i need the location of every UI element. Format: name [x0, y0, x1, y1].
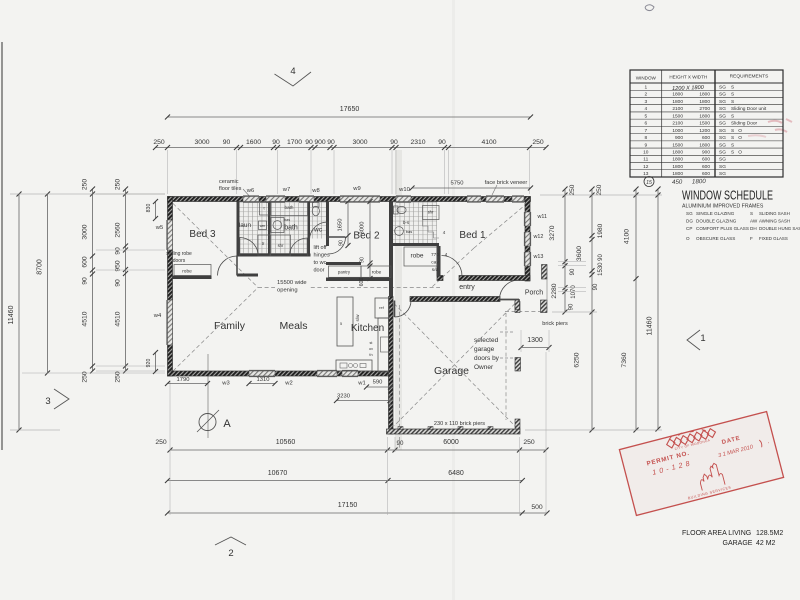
door laundry: [240, 238, 259, 257]
pen mark top right corner: [645, 5, 654, 11]
svg-text:w13: w13: [533, 254, 544, 260]
dim 920 line: [155, 353, 157, 372]
svg-text:S: S: [750, 211, 753, 216]
svg-text:1800: 1800: [672, 99, 683, 105]
svg-text:600: 600: [702, 157, 710, 163]
svg-text:SG: SG: [719, 128, 726, 134]
svg-text:4510: 4510: [82, 311, 89, 326]
svg-text:90: 90: [327, 139, 335, 146]
garage right wall bottom pier: [515, 419, 520, 429]
dim 3230: [337, 400, 391, 402]
svg-text:Bed 2: Bed 2: [353, 231, 380, 242]
svg-text:2100: 2100: [672, 106, 683, 112]
svg-text:SG: SG: [719, 121, 726, 127]
window w11: [525, 212, 530, 226]
svg-text:FLOOR AREA LIVING: FLOOR AREA LIVING: [682, 530, 751, 537]
laundry trough: [260, 203, 270, 216]
door bed2: [329, 236, 346, 238]
svg-text:920: 920: [146, 359, 152, 368]
svg-text:42 M2: 42 M2: [756, 540, 776, 547]
svg-text:1800: 1800: [672, 150, 683, 156]
table header row: [630, 82, 783, 84]
wall robe bed1 east: [437, 246, 441, 277]
svg-text:S: S: [731, 113, 734, 119]
svg-text:1800: 1800: [672, 92, 683, 98]
bed3 robe cabinet: [174, 265, 211, 276]
svg-text:90: 90: [438, 139, 446, 146]
svg-text:SG: SG: [686, 211, 693, 216]
right extension lines: [540, 194, 662, 196]
exterior wall top: [168, 197, 531, 202]
fridge space: [375, 298, 389, 318]
right dim string V2: [591, 189, 593, 430]
svg-text:15: 15: [646, 180, 652, 186]
bottom dim B2: [168, 480, 523, 482]
garage south wall piers: [398, 427, 403, 430]
svg-text:bas: bas: [284, 218, 290, 222]
svg-text:bas: bas: [406, 229, 412, 234]
svg-text:w12: w12: [533, 234, 544, 240]
svg-text:OBSCURE GLASS: OBSCURE GLASS: [696, 236, 735, 241]
door bed3: [218, 256, 238, 276]
svg-text:3000: 3000: [82, 224, 89, 239]
svg-text:2100: 2100: [672, 121, 683, 127]
interior dim line x348: [347, 202, 349, 246]
svg-text:b-s: b-s: [403, 220, 410, 225]
svg-text:90: 90: [569, 303, 575, 310]
svg-text:1200 X 1800: 1200 X 1800: [672, 85, 705, 92]
svg-text:5750: 5750: [451, 181, 464, 187]
svg-text:90: 90: [339, 240, 345, 246]
svg-text:w2: w2: [284, 381, 292, 387]
window w1 south: [342, 371, 358, 376]
svg-text:3230: 3230: [337, 394, 350, 400]
svg-text:entry: entry: [459, 284, 475, 291]
svg-text:DOUBLE HUNG SASH: DOUBLE HUNG SASH: [759, 226, 800, 231]
svg-text:SG: SG: [719, 84, 726, 90]
section marker 2 chevron: [215, 537, 246, 545]
svg-text:1600: 1600: [246, 139, 261, 146]
wall kitchen-garage: [389, 297, 394, 435]
svg-text:lift off: lift off: [314, 245, 328, 251]
svg-text:w9: w9: [352, 186, 360, 192]
wall wc/hall: [326, 202, 329, 247]
roof ridge dash: [258, 287, 440, 289]
garage roof dashes: [394, 304, 515, 427]
svg-text:s/d: s/d: [432, 267, 439, 273]
svg-text:th: th: [369, 353, 372, 357]
porch pier south: [541, 300, 548, 313]
svg-text:WINDOW: WINDOW: [636, 76, 657, 81]
svg-text:shr: shr: [428, 210, 434, 215]
table rows: [630, 89, 783, 91]
svg-text:1650: 1650: [338, 219, 344, 232]
svg-text:4510: 4510: [115, 311, 122, 326]
section marker A line: [207, 354, 209, 438]
garage centre dashed line: [399, 305, 401, 448]
dim 1310: [249, 383, 275, 385]
dim 590: [367, 386, 391, 388]
svg-text:doors: doors: [173, 258, 186, 264]
tiled floor ensuite: [393, 202, 437, 244]
svg-text:12: 12: [643, 164, 649, 170]
svg-text:90: 90: [223, 139, 231, 146]
svg-text:Garage: Garage: [434, 365, 469, 377]
svg-text:1800: 1800: [672, 164, 683, 170]
svg-text:1500: 1500: [672, 142, 683, 148]
svg-text:ov: ov: [369, 347, 373, 351]
svg-text:COMFORT PLUS GLASS: COMFORT PLUS GLASS: [696, 226, 749, 231]
svg-text:Bed 1: Bed 1: [459, 230, 486, 241]
svg-text:opening: opening: [277, 288, 298, 294]
exterior wall family south: [168, 371, 393, 376]
svg-text:90: 90: [570, 268, 576, 275]
svg-text:SLIDING SASH: SLIDING SASH: [759, 211, 790, 216]
svg-text:3000: 3000: [360, 222, 366, 235]
roof hip dashes family: [173, 204, 258, 288]
bath vanity basin: [271, 218, 284, 233]
svg-text:7360: 7360: [621, 352, 628, 367]
svg-text:90: 90: [272, 139, 280, 146]
dim 11460 line (left): [18, 194, 20, 430]
ensuite shower: [423, 206, 440, 220]
porch pier north: [542, 265, 548, 280]
svg-text:robe: robe: [372, 270, 382, 276]
roof hip dashes bed1: [474, 203, 528, 248]
svg-text:90: 90: [82, 277, 89, 285]
svg-text:robe: robe: [410, 253, 423, 260]
wall bed2/ensuite: [389, 202, 393, 297]
svg-text:pantry: pantry: [338, 270, 351, 275]
wall south of pantry/robe: [326, 278, 391, 282]
bed2 robe cabinet: [361, 266, 391, 277]
svg-text:w7: w7: [282, 187, 290, 193]
svg-text:SG: SG: [719, 99, 726, 105]
svg-text:w11: w11: [537, 214, 548, 220]
window w9: [340, 197, 380, 202]
svg-text:770: 770: [431, 252, 439, 258]
svg-text:1000: 1000: [672, 128, 683, 134]
svg-text:250: 250: [115, 179, 122, 191]
ensuite toilet: [394, 206, 399, 214]
porch edge line: [546, 265, 548, 312]
stamp logo diamonds: [666, 428, 717, 449]
pink scan smudge near table rows: [768, 119, 792, 132]
svg-text:1800: 1800: [699, 142, 710, 148]
svg-text:9: 9: [644, 142, 647, 148]
window w4 (left wall): [168, 300, 173, 345]
svg-text:w5: w5: [155, 225, 163, 231]
svg-text:ALUMINIUM IMPROVED FRAMES: ALUMINIUM IMPROVED FRAMES: [682, 204, 764, 210]
stamp BUILDING SERVICES: [688, 486, 732, 500]
window w3/w2 south a: [249, 371, 275, 376]
svg-text:floor tiles: floor tiles: [219, 186, 242, 192]
svg-text:cav: cav: [431, 261, 439, 266]
svg-text:SG: SG: [719, 142, 726, 148]
svg-text:w8: w8: [311, 188, 319, 194]
svg-text:S: S: [731, 99, 734, 105]
exterior wall bed1 front: [459, 276, 530, 281]
svg-text:2: 2: [228, 548, 233, 559]
section marker 3 chevron: [54, 389, 69, 409]
svg-text:S O: S O: [731, 135, 742, 141]
svg-text:Kitchen: Kitchen: [351, 323, 384, 334]
svg-text:90: 90: [397, 440, 404, 447]
svg-text:1800: 1800: [699, 99, 710, 105]
stamp castle icon: [696, 462, 725, 490]
svg-text:SG: SG: [719, 164, 726, 170]
svg-text:DG: DG: [686, 219, 693, 224]
wall stub bed1 door: [437, 276, 443, 281]
svg-text:11460: 11460: [8, 305, 15, 324]
svg-text:SG: SG: [719, 92, 726, 98]
svg-text:6250: 6250: [574, 352, 581, 367]
svg-text:8700: 8700: [37, 259, 44, 275]
svg-text:900: 900: [675, 135, 683, 141]
window w13: [525, 252, 530, 266]
page edge line left: [1, 42, 3, 450]
svg-text:6000: 6000: [443, 439, 459, 446]
window w6: [243, 197, 259, 202]
svg-text:DOUBLE GLAZING: DOUBLE GLAZING: [696, 219, 737, 224]
tiled floor bathroom: [271, 202, 308, 254]
svg-text:w1: w1: [357, 381, 365, 387]
bottom dim B3: [168, 512, 548, 514]
kitchen cooktop marks: [340, 363, 347, 368]
garage right wall mid pier: [515, 358, 521, 372]
svg-text:10560: 10560: [276, 439, 296, 446]
kitchen oven tower inner: [381, 337, 389, 352]
wall bath/wc: [308, 202, 311, 257]
bottom dim string B1: [170, 449, 546, 451]
svg-text:90: 90: [593, 283, 599, 290]
face brick veneer leader: [492, 185, 497, 195]
svg-text:ceramic: ceramic: [219, 179, 239, 185]
scan streak: [395, 150, 402, 450]
section marker A circle: [199, 414, 216, 431]
svg-text:250: 250: [569, 184, 576, 195]
svg-text:2280: 2280: [551, 283, 558, 298]
svg-text:face brick veneer: face brick veneer: [485, 180, 528, 186]
svg-text:90: 90: [390, 139, 398, 146]
svg-text:3: 3: [45, 396, 50, 407]
svg-text:A: A: [223, 418, 231, 430]
svg-text:1: 1: [644, 84, 647, 90]
svg-text:WINDOW SCHEDULE: WINDOW SCHEDULE: [682, 188, 773, 203]
north marker 4 chevron: [275, 72, 312, 86]
svg-text:8: 8: [644, 135, 647, 141]
left dim string 2: [125, 189, 127, 371]
top extension lines: [167, 150, 169, 194]
svg-text:250: 250: [155, 439, 167, 446]
svg-text:3: 3: [644, 99, 647, 105]
garage right wall top pier: [515, 302, 520, 313]
svg-text:900: 900: [314, 139, 326, 146]
svg-text:250: 250: [596, 184, 603, 195]
front door arc: [500, 280, 520, 300]
svg-text:Family: Family: [214, 320, 246, 332]
svg-text:1700: 1700: [287, 139, 302, 146]
exterior wall entry north: [410, 297, 500, 302]
svg-text:90: 90: [305, 139, 313, 146]
svg-text:230 x 110 brick piers: 230 x 110 brick piers: [434, 421, 485, 427]
svg-text:250: 250: [532, 139, 544, 146]
svg-text:SINGLE GLAZING: SINGLE GLAZING: [696, 211, 735, 216]
svg-text:4100: 4100: [481, 139, 496, 146]
window schedule table frame: [630, 70, 783, 177]
door bathroom: [290, 238, 308, 256]
svg-text:SG: SG: [719, 150, 726, 156]
svg-text:O: O: [686, 236, 690, 241]
wall wet rooms south: [237, 254, 311, 257]
svg-text:SG: SG: [719, 106, 726, 112]
right dim string V3: [635, 189, 637, 430]
garage door recess dashes: [505, 313, 507, 420]
svg-text:250: 250: [523, 439, 535, 446]
svg-text:1530 90: 1530 90: [598, 254, 604, 276]
svg-text:3000: 3000: [194, 139, 209, 146]
svg-text:11: 11: [643, 157, 648, 163]
bed1 robe cabinet: [404, 247, 437, 266]
svg-text:Meals: Meals: [279, 320, 307, 332]
svg-text:600: 600: [702, 164, 710, 170]
svg-text:doors by: doors by: [474, 355, 500, 362]
left dim string 1: [92, 189, 94, 371]
svg-text:17650: 17650: [340, 106, 360, 113]
svg-text:S O: S O: [731, 128, 742, 134]
garage south wall brick: [387, 429, 521, 434]
dim 5750 line: [412, 187, 531, 189]
section marker 1 chevron: [687, 330, 700, 350]
svg-text:Porch: Porch: [525, 290, 543, 297]
svg-text:SG: SG: [719, 113, 726, 119]
top dimension string line: [156, 147, 547, 149]
handwritten row 15 circle: [644, 177, 654, 187]
svg-text:1800: 1800: [692, 178, 707, 185]
bath shower: [271, 235, 291, 256]
svg-text:500: 500: [531, 504, 543, 511]
exterior wall left: [168, 197, 173, 377]
right dim string V4: [657, 189, 659, 429]
svg-text:Bed 3: Bed 3: [189, 229, 216, 240]
svg-text:s/w: s/w: [355, 314, 360, 322]
interior dim line x370: [369, 202, 371, 279]
dim 1300 line: [521, 347, 549, 349]
svg-text:10: 10: [643, 150, 649, 156]
svg-text:DH: DH: [750, 226, 757, 231]
ensuite basin: [395, 227, 404, 236]
svg-text:AWNING SASH: AWNING SASH: [759, 219, 790, 224]
svg-text:10670: 10670: [268, 470, 288, 477]
svg-text:2560: 2560: [115, 222, 122, 237]
wall bed3/laundry: [237, 202, 240, 257]
svg-text:S O: S O: [731, 150, 742, 156]
svg-text:250: 250: [82, 179, 89, 191]
table column lines: [661, 70, 663, 177]
svg-text:door: door: [314, 268, 325, 274]
dim 1790: [168, 383, 208, 385]
permit stamp group: [619, 411, 783, 515]
svg-text:3000: 3000: [352, 139, 367, 146]
svg-text:15500 wide: 15500 wide: [277, 280, 307, 286]
note 15500 wide opening: [275, 277, 309, 292]
svg-text:4100: 4100: [624, 229, 631, 244]
exterior wall right bed1: [525, 197, 530, 282]
tiled floor wc: [310, 202, 326, 239]
svg-text:4: 4: [644, 106, 647, 112]
window bed1 north a: [467, 197, 481, 202]
kitchen south bench: [336, 360, 372, 371]
svg-text:shr: shr: [278, 243, 284, 248]
entry porch pier: [515, 300, 520, 310]
svg-text:1800: 1800: [672, 157, 683, 163]
svg-text:w6: w6: [246, 188, 254, 194]
svg-text:1800: 1800: [699, 92, 710, 98]
svg-text:1200: 1200: [699, 128, 710, 134]
svg-text:11460: 11460: [647, 316, 654, 335]
svg-text:w3: w3: [221, 381, 229, 387]
svg-text:brick piers: brick piers: [542, 321, 568, 327]
svg-text:1790: 1790: [177, 377, 190, 383]
svg-text:600: 600: [702, 135, 710, 141]
svg-text:Sliding Door unit: Sliding Door unit: [731, 106, 767, 112]
bottom extension lines: [169, 380, 171, 515]
svg-text:SG: SG: [719, 171, 726, 177]
svg-text:5: 5: [644, 113, 647, 119]
svg-text:590: 590: [373, 380, 383, 386]
svg-text:S: S: [731, 142, 734, 148]
svg-text:6: 6: [644, 121, 647, 127]
svg-text:bath: bath: [284, 225, 298, 232]
svg-text:3270: 3270: [549, 225, 556, 240]
window w8: [299, 197, 314, 202]
window w10: [396, 197, 411, 202]
window w7: [266, 197, 285, 202]
svg-text:1800: 1800: [672, 171, 683, 177]
svg-text:sliding robe: sliding robe: [166, 251, 192, 257]
svg-text:2310: 2310: [410, 139, 425, 146]
svg-text:450: 450: [672, 179, 683, 186]
svg-text:600: 600: [702, 171, 710, 177]
svg-text:1980: 1980: [597, 223, 604, 238]
dim 830 line: [155, 202, 157, 219]
tiled floor laundry: [240, 202, 269, 254]
svg-text:3600: 3600: [576, 246, 583, 261]
svg-text:7: 7: [644, 128, 647, 134]
svg-text:HEIGHT X WIDTH: HEIGHT X WIDTH: [669, 75, 707, 80]
porch edge dashed: [505, 311, 546, 313]
window w12: [525, 232, 530, 246]
svg-text:600: 600: [359, 278, 365, 287]
ceramic tiles leader: [243, 189, 252, 199]
svg-text:1500: 1500: [699, 121, 710, 127]
svg-text:250: 250: [153, 139, 165, 146]
svg-text:REQUIREMENTS: REQUIREMENTS: [730, 74, 769, 80]
svg-text:S: S: [731, 84, 734, 90]
svg-text:Owner: Owner: [474, 364, 494, 371]
window bed1 north c: [512, 197, 524, 202]
wall laundry/bath: [268, 202, 271, 257]
laundry washing machine: [259, 221, 267, 230]
svg-text:bath: bath: [285, 205, 294, 210]
svg-text:SG: SG: [719, 135, 726, 141]
wall stub south of laundry: [237, 274, 258, 277]
svg-text:830: 830: [146, 204, 152, 213]
window south b: [317, 371, 337, 376]
svg-text:S: S: [731, 92, 734, 98]
dim 8700 line: [47, 194, 49, 373]
front door leaf: [500, 299, 520, 301]
